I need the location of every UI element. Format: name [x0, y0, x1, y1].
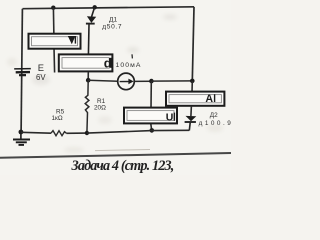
label 100mA with pointer tick [131, 54, 133, 58]
svg-text:д100.9: д100.9 [199, 120, 231, 127]
node: bottom junction mid [85, 131, 89, 135]
resistor box 2 (answer field) [59, 54, 113, 71]
svg-text:Е: Е [38, 62, 44, 73]
svg-text:Д1: Д1 [109, 16, 117, 23]
node: bottom-left junction [19, 130, 24, 135]
wire: from top wire into box 1 [52, 8, 55, 36]
svg-text:1кΩ: 1кΩ [52, 115, 63, 122]
page rule [0, 153, 231, 158]
wire: junction1 down into box 4 [150, 81, 152, 109]
svg-text:U: U [166, 111, 174, 123]
svg-text:20Ω: 20Ω [94, 104, 106, 111]
wire: bottom right segment [87, 130, 189, 133]
node: top junction to diode D1 [93, 5, 97, 9]
wire: top horizontal [23, 7, 195, 9]
node: mid junction 2 [190, 79, 195, 84]
wire: right vertical [192, 7, 194, 81]
wire: below box 4 [150, 124, 153, 131]
paper background [0, 0, 231, 175]
svg-text:Д2: Д2 [210, 112, 218, 119]
node: mid-left junction [86, 78, 91, 83]
wire: mid horizontal right of meter [134, 80, 151, 82]
wire: mid horizontal to right wire [151, 80, 192, 82]
svg-text:6V: 6V [36, 73, 46, 82]
svg-text:A: A [205, 93, 213, 105]
wire: mid horizontal left of meter [88, 79, 118, 82]
diode D1 [86, 7, 96, 55]
resistor box 1 (answer field) [29, 34, 81, 49]
node: top junction to R-box branch [51, 6, 55, 10]
wire: box2 to mid node [87, 72, 89, 81]
svg-text:100мА: 100мА [116, 62, 142, 69]
wire: bottom left segment [21, 131, 51, 134]
wire: bottom mid segment [67, 132, 87, 134]
wire: left vertical [21, 9, 22, 133]
battery E [14, 69, 31, 76]
node: mid junction 1 [149, 79, 154, 84]
node: bottom junction right [150, 128, 155, 133]
ammeter (circle with arrow) [118, 73, 135, 90]
resistor R1 zigzag [85, 81, 89, 134]
wire: junction2 down into box 3 [191, 81, 193, 93]
wire: box3 down to diode D2 [190, 106, 193, 116]
svg-text:Задача 4 (стр. 123,: Задача 4 (стр. 123, [71, 158, 174, 174]
resistor box 3 (answer field) [166, 92, 224, 106]
ground symbol [13, 132, 30, 145]
faint pre-rule shadow [95, 150, 150, 151]
resistor box 4 (answer field) [124, 108, 177, 124]
diode D2 [185, 116, 197, 131]
svg-text:д50.7: д50.7 [102, 24, 122, 31]
wire: stub below box 1 [53, 48, 56, 73]
resistor R5 zigzag [51, 131, 67, 136]
